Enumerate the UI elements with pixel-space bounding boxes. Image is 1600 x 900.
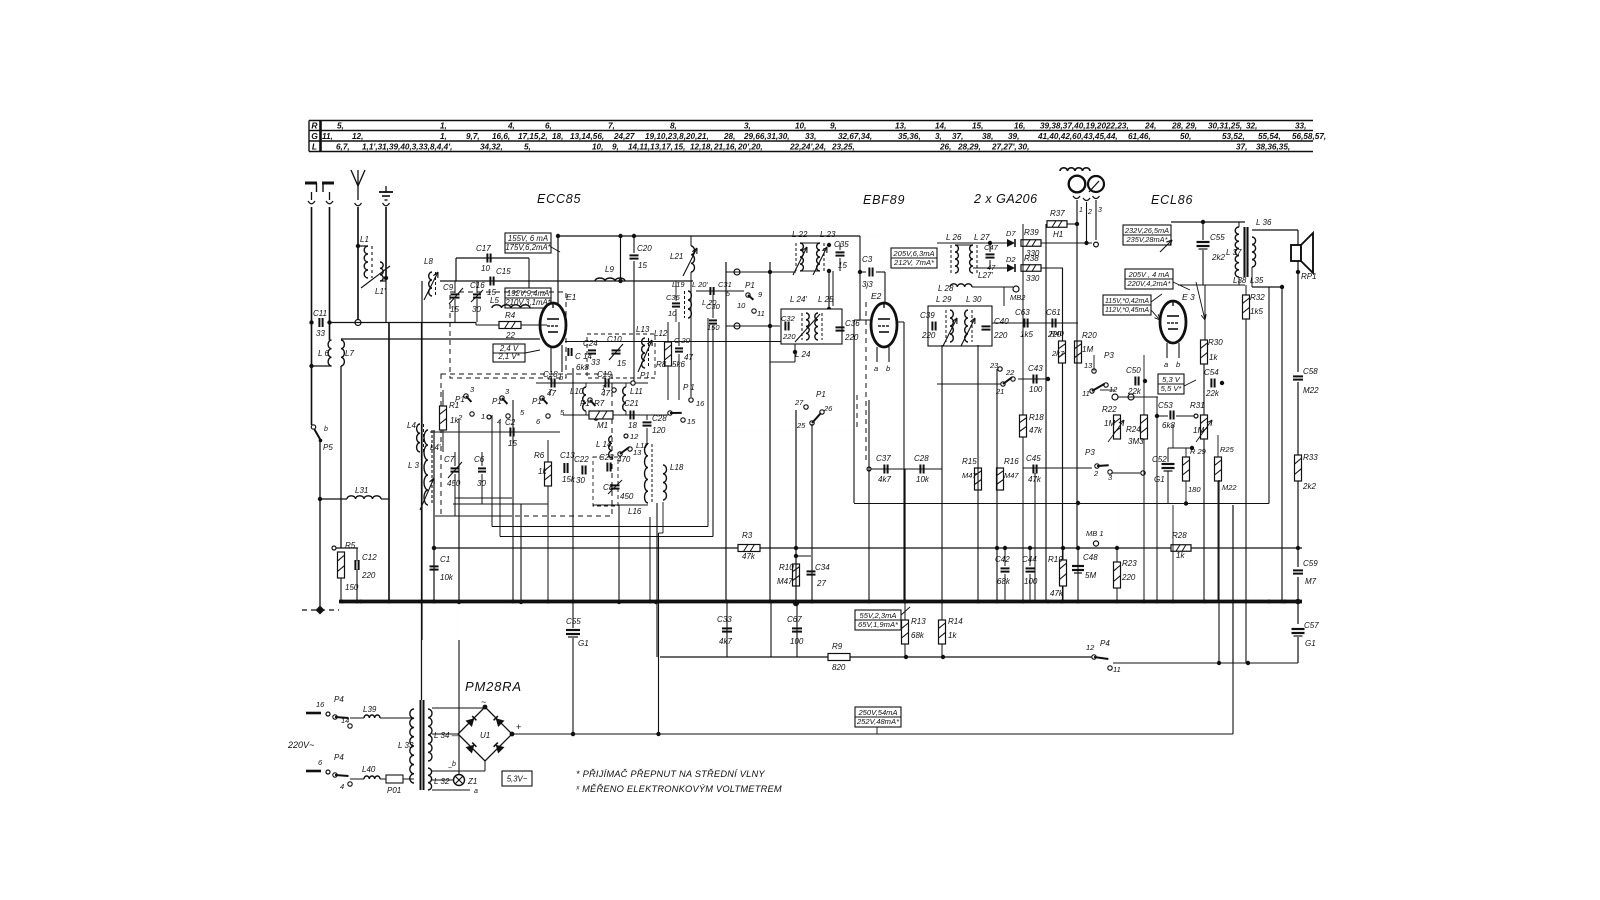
svg-text:R18: R18 xyxy=(1029,413,1044,422)
svg-text:235V,28mA*: 235V,28mA* xyxy=(1126,235,1169,244)
svg-text:R24: R24 xyxy=(1126,425,1141,434)
svg-text:2: 2 xyxy=(457,413,463,422)
svg-text:E2: E2 xyxy=(871,291,882,301)
svg-text:E1: E1 xyxy=(566,292,577,302)
svg-text:C57: C57 xyxy=(1304,621,1319,630)
svg-text:22,24',24,: 22,24',24, xyxy=(789,143,826,152)
svg-text:38,: 38, xyxy=(982,132,993,141)
svg-text:P4: P4 xyxy=(334,753,344,762)
svg-text:11: 11 xyxy=(1082,389,1090,398)
svg-text:P1: P1 xyxy=(745,281,755,290)
svg-text:3j3: 3j3 xyxy=(862,280,873,289)
svg-text:1k: 1k xyxy=(538,467,547,476)
svg-text:L12: L12 xyxy=(654,329,668,338)
svg-text:L21: L21 xyxy=(670,252,683,261)
svg-text:L 22: L 22 xyxy=(792,230,808,239)
svg-text:R28: R28 xyxy=(1172,531,1187,540)
svg-text:C48: C48 xyxy=(1083,553,1098,562)
svg-text:C1: C1 xyxy=(440,555,450,564)
svg-text:C52: C52 xyxy=(1152,455,1167,464)
svg-text:26,: 26, xyxy=(939,143,951,152)
svg-text:L13: L13 xyxy=(636,325,650,334)
svg-text:41,40,42,60,43,45,44,: 41,40,42,60,43,45,44, xyxy=(1037,132,1118,141)
svg-text:C3: C3 xyxy=(862,255,873,264)
svg-text:RP1: RP1 xyxy=(1301,272,1317,281)
svg-text:14: 14 xyxy=(341,716,349,725)
svg-text:R16: R16 xyxy=(1004,457,1019,466)
svg-text:16: 16 xyxy=(696,399,705,408)
svg-text:R19: R19 xyxy=(1048,555,1063,564)
svg-text:220: 220 xyxy=(921,331,936,340)
svg-text:1,: 1, xyxy=(440,122,447,131)
svg-text:25: 25 xyxy=(796,421,806,430)
svg-text:L 25: L 25 xyxy=(818,295,834,304)
svg-text:15,: 15, xyxy=(674,143,685,152)
svg-text:L 30: L 30 xyxy=(966,295,982,304)
svg-text:10k: 10k xyxy=(916,475,930,484)
svg-text:L19: L19 xyxy=(672,280,685,289)
svg-text:C59: C59 xyxy=(1303,559,1318,568)
svg-text:820: 820 xyxy=(832,663,846,672)
svg-text:37,: 37, xyxy=(1236,143,1247,152)
svg-text:39,: 39, xyxy=(1008,132,1019,141)
svg-text:L5: L5 xyxy=(490,296,499,305)
svg-text:a: a xyxy=(1164,360,1168,369)
svg-text:37,: 37, xyxy=(952,132,963,141)
svg-text:L1': L1' xyxy=(375,287,386,296)
svg-text:EBF89: EBF89 xyxy=(863,193,905,207)
svg-text:C18: C18 xyxy=(543,370,558,379)
svg-text:11: 11 xyxy=(757,309,765,318)
svg-text:29,66,31,30,: 29,66,31,30, xyxy=(743,132,790,141)
svg-text:15,: 15, xyxy=(972,122,983,131)
svg-text:5,: 5, xyxy=(337,122,344,131)
svg-text:1M: 1M xyxy=(1082,345,1093,354)
svg-text:P1: P1 xyxy=(532,397,542,406)
svg-text:H1: H1 xyxy=(1053,230,1063,239)
svg-text:C31: C31 xyxy=(718,280,732,289)
svg-text:C20: C20 xyxy=(637,244,652,253)
svg-text:47: 47 xyxy=(684,353,693,362)
svg-text:C12: C12 xyxy=(362,553,377,562)
svg-text:4,: 4, xyxy=(507,122,515,131)
svg-text:C61: C61 xyxy=(1046,308,1061,317)
svg-text:MB2: MB2 xyxy=(1010,293,1026,302)
svg-text:4: 4 xyxy=(497,417,501,426)
svg-text:35,36,: 35,36, xyxy=(898,132,921,141)
svg-text:6,: 6, xyxy=(545,122,552,131)
svg-text:38,36,35,: 38,36,35, xyxy=(1256,143,1290,152)
svg-text:C34: C34 xyxy=(815,563,830,572)
svg-text:23: 23 xyxy=(989,361,999,370)
svg-text:L 6: L 6 xyxy=(318,349,330,358)
svg-text:12: 12 xyxy=(1086,643,1095,652)
svg-text:47k: 47k xyxy=(1029,426,1043,435)
svg-text:C10: C10 xyxy=(607,335,622,344)
svg-text:450: 450 xyxy=(620,492,634,501)
svg-text:Z1: Z1 xyxy=(467,777,477,786)
svg-text:R5: R5 xyxy=(345,541,356,550)
svg-text:27,27',: 27,27', xyxy=(991,143,1017,152)
svg-text:61,46,: 61,46, xyxy=(1128,132,1151,141)
svg-text:24,: 24, xyxy=(1144,122,1156,131)
svg-text:R4: R4 xyxy=(505,311,516,320)
svg-text:180: 180 xyxy=(1188,485,1201,494)
svg-text:10: 10 xyxy=(737,301,746,310)
svg-text:R13: R13 xyxy=(911,617,926,626)
svg-text:220: 220 xyxy=(361,571,376,580)
svg-text:L 27: L 27 xyxy=(974,233,990,242)
svg-text:18: 18 xyxy=(628,421,637,430)
svg-text:P4: P4 xyxy=(334,695,344,704)
svg-text:D7: D7 xyxy=(1006,229,1016,238)
svg-text:R31: R31 xyxy=(1190,401,1205,410)
svg-text:MB 1: MB 1 xyxy=(1086,529,1104,538)
svg-text:1k5: 1k5 xyxy=(1020,330,1033,339)
svg-text:C32: C32 xyxy=(781,314,796,323)
svg-text:13: 13 xyxy=(1084,361,1093,370)
svg-text:P01: P01 xyxy=(387,786,401,795)
svg-text:C19: C19 xyxy=(597,370,612,379)
svg-text:C6: C6 xyxy=(474,455,485,464)
svg-text:1k5: 1k5 xyxy=(1250,307,1263,316)
svg-text:33,: 33, xyxy=(1295,122,1306,131)
svg-text:L 3: L 3 xyxy=(408,461,420,470)
svg-text:+: + xyxy=(516,722,521,732)
svg-text:12,: 12, xyxy=(352,132,363,141)
svg-text:22: 22 xyxy=(1005,368,1015,377)
svg-text:L1: L1 xyxy=(360,235,369,244)
svg-text:L: L xyxy=(312,142,317,152)
svg-text:1,1',31,39,40,3,33,8,4,4',: 1,1',31,39,40,3,33,8,4,4', xyxy=(362,143,452,152)
svg-text:G1: G1 xyxy=(1305,639,1316,648)
svg-text:16,: 16, xyxy=(1014,122,1025,131)
svg-text:a: a xyxy=(874,364,878,373)
svg-text:19,10,23,8,20,21,: 19,10,23,8,20,21, xyxy=(645,132,709,141)
svg-text:16: 16 xyxy=(316,700,325,709)
svg-text:205V,6,3mA: 205V,6,3mA xyxy=(892,249,934,258)
svg-text:R: R xyxy=(311,121,318,131)
svg-text:5,3 V: 5,3 V xyxy=(1162,375,1181,384)
svg-text:L31: L31 xyxy=(355,486,368,495)
svg-text:14,11,13,17,: 14,11,13,17, xyxy=(628,143,673,152)
svg-text:22k: 22k xyxy=(1205,389,1220,398)
svg-text:C39: C39 xyxy=(920,311,935,320)
svg-text:220: 220 xyxy=(993,331,1008,340)
svg-text:C54: C54 xyxy=(1204,368,1219,377)
svg-text:C8: C8 xyxy=(603,483,614,492)
svg-text:L 28: L 28 xyxy=(938,284,954,293)
svg-text:47k: 47k xyxy=(742,552,756,561)
svg-text:R25: R25 xyxy=(1220,445,1235,454)
svg-text:R8: R8 xyxy=(656,360,667,369)
svg-text:P4: P4 xyxy=(1100,639,1110,648)
svg-text:R 29: R 29 xyxy=(1190,447,1207,456)
svg-text:24,27: 24,27 xyxy=(613,132,635,141)
svg-text:C67: C67 xyxy=(787,615,802,624)
svg-text:L 24: L 24 xyxy=(795,350,811,359)
svg-text:C28: C28 xyxy=(914,454,929,463)
svg-text:1: 1 xyxy=(1079,207,1083,214)
svg-text:L8: L8 xyxy=(424,257,433,266)
svg-text:L4: L4 xyxy=(407,421,416,430)
svg-text:252V,48mA*: 252V,48mA* xyxy=(856,717,900,726)
svg-text:65V,1,9mA*: 65V,1,9mA* xyxy=(858,620,899,629)
svg-text:R38: R38 xyxy=(1024,254,1039,263)
svg-text:3M3: 3M3 xyxy=(1128,437,1144,446)
svg-text:28, 29,: 28, 29, xyxy=(1171,122,1197,131)
svg-text:56,58,57,: 56,58,57, xyxy=(1292,132,1326,141)
svg-text:33,: 33, xyxy=(805,132,816,141)
svg-text:3,: 3, xyxy=(744,122,751,131)
svg-text:30: 30 xyxy=(576,476,585,485)
svg-text:C22: C22 xyxy=(574,455,589,464)
svg-text:G1: G1 xyxy=(578,639,589,648)
svg-text:175V,6,2mA*: 175V,6,2mA* xyxy=(505,243,551,252)
svg-text:39,38,37,40,19,20,: 39,38,37,40,19,20, xyxy=(1040,122,1108,131)
svg-text:12,18,: 12,18, xyxy=(690,143,713,152)
svg-text:PM28RA: PM28RA xyxy=(465,679,522,694)
svg-text:P5: P5 xyxy=(323,443,333,452)
svg-text:L7: L7 xyxy=(345,349,354,358)
svg-text:L 32: L 32 xyxy=(434,777,450,786)
svg-text:R20: R20 xyxy=(1082,331,1097,340)
svg-text:R14: R14 xyxy=(948,617,963,626)
svg-text:R6: R6 xyxy=(534,451,545,460)
svg-text:C36: C36 xyxy=(845,319,860,328)
svg-text:30,31,25,: 30,31,25, xyxy=(1208,122,1242,131)
svg-text:1: 1 xyxy=(602,383,606,392)
svg-text:L9: L9 xyxy=(605,265,614,274)
svg-text:R15: R15 xyxy=(962,457,977,466)
svg-text:P1: P1 xyxy=(640,371,650,380)
svg-text:R30: R30 xyxy=(1208,338,1223,347)
svg-text:L10: L10 xyxy=(570,387,584,396)
svg-text:21: 21 xyxy=(995,387,1004,396)
svg-text:C37: C37 xyxy=(876,454,891,463)
svg-text:232V,26,5mA: 232V,26,5mA xyxy=(1124,226,1169,235)
svg-text:3,: 3, xyxy=(935,132,942,141)
svg-text:1M: 1M xyxy=(1193,426,1204,435)
svg-text:11,: 11, xyxy=(322,132,333,141)
svg-text:22,23,: 22,23, xyxy=(1105,122,1129,131)
svg-text:9,: 9, xyxy=(612,143,619,152)
svg-text:100: 100 xyxy=(1029,385,1043,394)
svg-text:2k2: 2k2 xyxy=(1211,253,1225,262)
svg-text:10,: 10, xyxy=(592,143,603,152)
svg-text:C58: C58 xyxy=(1303,367,1318,376)
svg-text:L40: L40 xyxy=(362,765,376,774)
svg-text:C50: C50 xyxy=(1126,366,1141,375)
svg-text:L38: L38 xyxy=(1233,276,1247,285)
svg-text:2 x GA206: 2 x GA206 xyxy=(973,192,1038,206)
svg-text:R32: R32 xyxy=(1250,293,1265,302)
svg-text:220: 220 xyxy=(844,333,859,342)
svg-text:C17: C17 xyxy=(476,244,491,253)
svg-text:C2: C2 xyxy=(505,418,516,427)
svg-text:21,16,: 21,16, xyxy=(713,143,737,152)
svg-text:50,: 50, xyxy=(1180,132,1191,141)
svg-text:R40: R40 xyxy=(1050,329,1065,338)
svg-text:14,: 14, xyxy=(935,122,946,131)
svg-text:L 29: L 29 xyxy=(936,295,952,304)
svg-text:10k: 10k xyxy=(440,573,454,582)
svg-text:M22: M22 xyxy=(1222,483,1237,492)
svg-text:C55: C55 xyxy=(1210,233,1225,242)
svg-text:R23: R23 xyxy=(1122,559,1137,568)
svg-text:L16: L16 xyxy=(628,507,642,516)
svg-text:C45: C45 xyxy=(1026,454,1041,463)
svg-text:220V,4,2mA*: 220V,4,2mA* xyxy=(1126,279,1171,288)
svg-text:L 24': L 24' xyxy=(790,295,807,304)
svg-text:1k: 1k xyxy=(1176,551,1185,560)
svg-text:M22: M22 xyxy=(1303,386,1319,395)
svg-text:13,: 13, xyxy=(895,122,906,131)
svg-text:4k7: 4k7 xyxy=(719,637,732,646)
svg-text:L 26: L 26 xyxy=(946,233,962,242)
svg-text:9,7,: 9,7, xyxy=(466,132,480,141)
svg-text:18,: 18, xyxy=(552,132,563,141)
svg-text:10,: 10, xyxy=(795,122,806,131)
svg-text:M7: M7 xyxy=(1305,577,1317,586)
svg-text:C 20: C 20 xyxy=(674,336,691,345)
svg-text:L 20': L 20' xyxy=(692,280,708,289)
svg-text:2k2: 2k2 xyxy=(1302,482,1316,491)
svg-text:R3: R3 xyxy=(742,531,753,540)
svg-text:100: 100 xyxy=(1024,577,1038,586)
svg-text:12: 12 xyxy=(1109,385,1118,394)
svg-text:C 14: C 14 xyxy=(575,352,592,361)
svg-text:33: 33 xyxy=(591,358,600,367)
svg-text:R7: R7 xyxy=(594,399,605,408)
svg-text:b: b xyxy=(452,761,456,768)
svg-text:b: b xyxy=(324,426,328,433)
svg-text:5,3V~: 5,3V~ xyxy=(507,775,528,784)
svg-text:2,1 V*: 2,1 V* xyxy=(497,352,520,361)
svg-text:P 1: P 1 xyxy=(683,383,695,392)
svg-text:P3: P3 xyxy=(1085,448,1095,457)
svg-text:C55: C55 xyxy=(566,617,581,626)
svg-text:28,29,: 28,29, xyxy=(957,143,981,152)
svg-text:20',20,: 20',20, xyxy=(737,143,763,152)
svg-text:3: 3 xyxy=(1098,207,1102,214)
svg-text:150: 150 xyxy=(707,323,720,332)
svg-text:L 37: L 37 xyxy=(1226,248,1242,257)
svg-text:P1: P1 xyxy=(455,395,465,404)
svg-text:G: G xyxy=(311,131,318,141)
svg-text:L 36: L 36 xyxy=(1256,218,1272,227)
svg-text:M47: M47 xyxy=(1004,471,1019,480)
svg-text:120: 120 xyxy=(652,426,666,435)
svg-text:2: 2 xyxy=(1087,209,1092,216)
svg-text:6,7,: 6,7, xyxy=(336,143,350,152)
svg-text:32,: 32, xyxy=(1246,122,1257,131)
svg-text:1k: 1k xyxy=(1209,353,1218,362)
svg-text:L 23: L 23 xyxy=(820,230,836,239)
svg-text:ˣ MĚŘENO ELEKTRONKOVÝM VOLTMET: ˣ MĚŘENO ELEKTRONKOVÝM VOLTMETREM xyxy=(575,784,782,794)
svg-text:47k: 47k xyxy=(1050,589,1064,598)
svg-text:53,52,: 53,52, xyxy=(1222,132,1245,141)
svg-text:192V,9,4mA: 192V,9,4mA xyxy=(507,289,549,298)
svg-text:27: 27 xyxy=(816,579,826,588)
svg-text:68k: 68k xyxy=(911,631,925,640)
svg-text:11: 11 xyxy=(1113,665,1121,674)
svg-text:R10: R10 xyxy=(779,563,794,572)
svg-text:5,: 5, xyxy=(524,143,531,152)
svg-text:15: 15 xyxy=(838,261,847,270)
svg-text:330: 330 xyxy=(1026,274,1040,283)
svg-text:ECC85: ECC85 xyxy=(537,192,581,206)
svg-text:12: 12 xyxy=(630,432,639,441)
svg-text:15k: 15k xyxy=(562,475,576,484)
svg-text:C28: C28 xyxy=(652,414,667,423)
svg-text:G1: G1 xyxy=(1154,475,1165,484)
svg-text:1M: 1M xyxy=(1104,419,1115,428)
svg-text:C33: C33 xyxy=(717,615,732,624)
svg-text:C40: C40 xyxy=(994,317,1009,326)
svg-text:32,67,34,: 32,67,34, xyxy=(838,132,872,141)
svg-text:E 3: E 3 xyxy=(1182,292,1195,302)
svg-text:1,: 1, xyxy=(440,132,447,141)
svg-text:L 14: L 14 xyxy=(596,440,612,449)
svg-text:P1: P1 xyxy=(492,397,502,406)
svg-text:L18: L18 xyxy=(670,463,684,472)
svg-text:L27': L27' xyxy=(978,271,993,280)
svg-text:ECL86: ECL86 xyxy=(1151,193,1193,207)
svg-text:8,: 8, xyxy=(670,122,677,131)
svg-text:33: 33 xyxy=(316,329,325,338)
svg-text:b: b xyxy=(1176,360,1180,369)
svg-text:C53: C53 xyxy=(1158,401,1173,410)
svg-text:5M: 5M xyxy=(1085,571,1096,580)
svg-text:220: 220 xyxy=(1121,573,1136,582)
svg-text:17,15,2,: 17,15,2, xyxy=(518,132,548,141)
svg-text:R9: R9 xyxy=(832,642,843,651)
svg-text:M1: M1 xyxy=(597,421,608,430)
svg-text:26: 26 xyxy=(823,404,833,413)
svg-text:D2: D2 xyxy=(1006,255,1016,264)
svg-text:13,14,56,: 13,14,56, xyxy=(570,132,604,141)
svg-text:1k: 1k xyxy=(948,631,957,640)
svg-text:L39: L39 xyxy=(363,705,377,714)
svg-text:U1: U1 xyxy=(480,731,490,740)
svg-text:C15: C15 xyxy=(496,267,511,276)
svg-text:4: 4 xyxy=(340,782,344,791)
svg-text:M47: M47 xyxy=(962,471,977,480)
svg-text:a: a xyxy=(474,788,478,795)
svg-text:2k7: 2k7 xyxy=(1051,349,1065,358)
svg-text:L 34 —: L 34 — xyxy=(434,731,461,740)
svg-text:15: 15 xyxy=(617,359,626,368)
svg-text:5,5 V*: 5,5 V* xyxy=(1161,384,1183,393)
svg-text:C16: C16 xyxy=(470,281,485,290)
svg-text:R33: R33 xyxy=(1303,453,1318,462)
svg-text:212V, 7mA*: 212V, 7mA* xyxy=(893,258,935,267)
svg-text:115V,*0,42mA: 115V,*0,42mA xyxy=(1105,298,1149,305)
svg-text:C35: C35 xyxy=(834,240,849,249)
svg-text:155V, 6 mA: 155V, 6 mA xyxy=(508,234,548,243)
svg-text:15: 15 xyxy=(687,417,696,426)
svg-text:L11: L11 xyxy=(630,387,643,396)
svg-text:112V,*0,45mA: 112V,*0,45mA xyxy=(1105,307,1149,314)
svg-text:22: 22 xyxy=(505,331,515,340)
svg-text:28,: 28, xyxy=(723,132,735,141)
svg-text:C43: C43 xyxy=(1028,364,1043,373)
svg-text:55,54,: 55,54, xyxy=(1258,132,1281,141)
svg-text:7,: 7, xyxy=(608,122,615,131)
svg-text:16,6,: 16,6, xyxy=(492,132,510,141)
svg-text:2: 2 xyxy=(1093,469,1099,478)
